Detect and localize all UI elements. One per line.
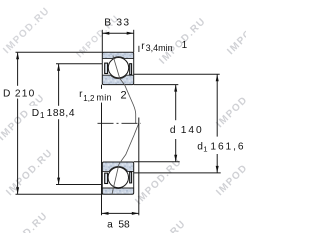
label D1 188,4 [30,106,78,119]
d1 down arrow [216,166,219,173]
svg-text:B: B [104,17,111,28]
svg-text:1: 1 [182,40,188,51]
B right extension line [133,30,135,53]
lower inner-ring shoulder line [102,170,133,172]
svg-text:min: min [96,92,111,102]
svg-text:58: 58 [118,220,130,231]
D bottom extension line [16,193,103,195]
svg-text:161,6: 161,6 [210,142,245,153]
D1 dimension line [58,64,60,184]
lower contact-angle line [112,123,139,194]
B right arrow [127,32,134,35]
svg-text:a: a [107,220,113,231]
D top extension line [16,51,103,53]
upper ball [108,57,128,77]
label B 33 [104,17,130,28]
lower raceway circle [107,167,129,189]
lower ball [108,167,128,187]
svg-text:210: 210 [15,88,36,99]
D1 down arrow [57,178,60,185]
upper bearing outer body [102,52,133,84]
svg-text:2: 2 [121,89,127,101]
svg-text:1: 1 [203,144,207,153]
lower cage right [130,172,132,183]
d1 top extension line [134,73,220,75]
B dimension line [102,32,133,34]
svg-text:140: 140 [181,125,204,136]
d1 dimension line [216,75,218,173]
upper cage right [130,64,132,75]
svg-text:d: d [170,125,176,136]
svg-text:1: 1 [40,111,45,120]
label d 140 [167,120,204,139]
a dimension line [102,212,139,214]
upper inner-ring shoulder line [102,74,133,76]
d up arrow [174,85,177,92]
label r 3,4min [141,41,172,53]
svg-text:3,4min: 3,4min [146,43,173,53]
B left arrow [103,32,110,35]
a left extension line [101,85,103,216]
d bottom extension line [134,161,180,163]
svg-text:D: D [3,88,10,99]
upper raceway circle [108,57,130,79]
D dimension line [17,53,19,194]
a right arrow [132,212,139,215]
lower bearing outer body [102,162,133,194]
lower bearing cavity [103,171,133,188]
label d1 161,6 [195,137,246,154]
upper cage left [105,63,108,73]
d top extension line [134,84,179,86]
svg-text:1,2: 1,2 [83,94,95,103]
upper outer-ring bore line [102,58,133,60]
d down arrow [174,155,177,162]
D up arrow [16,53,19,60]
a right extension line [138,118,140,216]
upper contact-angle line [113,56,136,124]
D down arrow [16,187,19,194]
label a 58 [107,220,130,231]
axis centreline [98,122,142,124]
d dimension line [175,85,177,162]
a left arrow [102,212,109,215]
d1 up arrow [216,74,219,81]
label r 1,2 min [77,89,114,103]
r 3,4 corner tick [138,46,140,52]
label D 210 [1,86,38,99]
lower outer-ring bore line [102,187,133,189]
lower cage left [105,173,108,183]
upper bearing cavity [103,59,133,76]
svg-text:D: D [32,108,39,119]
svg-text:33: 33 [116,17,130,28]
D1 bottom extension line [56,184,103,186]
D1 top extension line [56,63,103,65]
svg-text:188,4: 188,4 [47,108,76,119]
D1 up arrow [57,64,60,71]
B left extension line [101,30,103,53]
d1 bottom extension line [134,172,221,174]
